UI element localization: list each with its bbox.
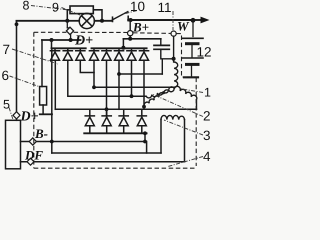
wire left drop to regulator D+ [16, 21, 18, 112]
wire rail75 to capacitor riser [119, 73, 162, 75]
node rectifier plus bus [121, 46, 125, 50]
svg-text:B+: B+ [132, 20, 149, 35]
terminal B- diamond [29, 138, 36, 145]
leader line 3 [164, 120, 203, 135]
node battery tap [191, 18, 196, 23]
node lamp left D+ [65, 19, 69, 23]
leader line 1 [181, 89, 203, 93]
wire phase column L1 anode [54, 60, 56, 109]
stator winding slope 1 [146, 88, 174, 98]
svg-text:11: 11 [158, 0, 172, 15]
svg-text:5: 5 [3, 98, 10, 112]
resistor R6 [40, 87, 47, 106]
leader line 5 [9, 108, 13, 120]
wire W down to stator [173, 36, 175, 62]
housing dashed boundary 4 [34, 32, 196, 168]
leader line 8 [9, 6, 203, 167]
svg-text:D+: D+ [74, 34, 93, 49]
diode VD-L2 [63, 48, 72, 60]
wire B+ bus riser to rectifier [122, 39, 124, 48]
arrow consumers [201, 17, 210, 24]
node col144 slope2 [142, 105, 146, 109]
rotor field winding 3 [161, 115, 185, 119]
node lamp right [100, 19, 104, 23]
leader line 9 [62, 8, 81, 16]
node B+ top [129, 18, 133, 22]
wire main top B+ line [17, 20, 68, 22]
svg-text:D+: D+ [20, 110, 39, 125]
svg-text:9: 9 [52, 1, 59, 15]
diode VD-B2 [102, 109, 111, 133]
battery GB12 [192, 20, 194, 37]
diode VD-R2 [102, 48, 111, 60]
diode VD-R5 [139, 48, 148, 60]
wire resistor left lead [67, 10, 70, 21]
node B- ground branch [50, 140, 54, 144]
stator winding slope right [175, 86, 197, 109]
wire lamp right lead [94, 20, 112, 22]
wire lamp left lead [67, 20, 79, 22]
terminal W circle [171, 31, 176, 36]
wire D+ terminal to bus [70, 35, 72, 40]
terminal D+ diamond [66, 27, 73, 34]
svg-text:1: 1 [204, 86, 211, 100]
svg-text:12: 12 [197, 45, 212, 60]
svg-text:10: 10 [130, 0, 145, 14]
wire resistor6 bottom lead [42, 105, 44, 114]
svg-text:4: 4 [203, 149, 211, 164]
leader line 6 [10, 76, 40, 87]
diode VD-L1 [50, 48, 59, 60]
node minus drop on B- wire [143, 140, 147, 144]
wire main plus diode bus [92, 47, 147, 49]
wire D+ bus [42, 39, 81, 41]
leader line 11 / W [172, 11, 174, 30]
wire col144 [143, 60, 145, 106]
node col131 rail96 [130, 94, 134, 98]
leader line 10 [122, 11, 138, 15]
wire DF riser to field coil [184, 120, 186, 162]
node col94 neutral [92, 85, 96, 89]
wire col131 [131, 60, 133, 96]
svg-text:W: W [177, 19, 190, 34]
terminal DF diamond [27, 158, 34, 165]
diode VD-R4 [127, 48, 136, 60]
resistor R8 (parallel to lamp) [70, 6, 93, 14]
wire resistor6 bottom bar [40, 113, 52, 115]
wire long vertical D+ to ground rail [51, 48, 53, 153]
ground battery [184, 76, 198, 78]
node B+ bus [128, 37, 132, 41]
switch S10 ignition [112, 17, 114, 21]
wire col119 [118, 60, 120, 109]
node D+ bus left riser [50, 38, 54, 42]
wire minus bus drop to B- [144, 133, 146, 141]
node top-left corner [15, 22, 19, 26]
stator winding slope 2 [144, 87, 174, 107]
wire field coil left lead [160, 120, 162, 153]
wire exciter diode bus [52, 47, 86, 49]
diode VD-R1 [89, 48, 98, 60]
wire B- from regulator [21, 141, 146, 143]
capacitor C [160, 39, 162, 45]
leader line 2 [152, 94, 203, 117]
leader line 7 [12, 49, 58, 64]
node col119 rail75 [117, 72, 121, 76]
svg-text:DF: DF [24, 148, 43, 163]
svg-text:7: 7 [3, 42, 11, 57]
wire col106 [106, 60, 108, 116]
node D+ bus terminal riser [69, 38, 73, 42]
wire B+ drop [129, 20, 131, 31]
diode VD-R3 [114, 48, 123, 60]
wire neutral rail to star point [94, 86, 175, 88]
wire phase column L2 anode to rail96 [68, 60, 146, 96]
diode VD-B1 [85, 109, 94, 133]
wire col94 neutral [93, 60, 95, 87]
svg-text:8: 8 [23, 0, 30, 13]
wire DF from regulator [21, 161, 185, 163]
wire long phase rail [55, 108, 196, 110]
node col106 rail109 [105, 107, 109, 111]
svg-text:6: 6 [2, 68, 10, 83]
terminal regulator D+ diamond [13, 112, 20, 119]
wire resistor6 top lead [41, 40, 43, 87]
wire to consumers with arrow (11) [193, 19, 204, 21]
node capacitor junction [172, 57, 176, 61]
terminal B+ circle [128, 31, 133, 36]
wire B+ bus [123, 38, 160, 40]
stator winding phase W vertical [174, 62, 178, 87]
diode VD-B3 [119, 109, 128, 133]
wire exciter bus riser [51, 40, 53, 48]
svg-text:2: 2 [203, 109, 211, 124]
wire ground rail lower [52, 152, 161, 154]
svg-text:3: 3 [203, 128, 211, 143]
wire phase column L3 anode to col94 [80, 60, 94, 72]
lamp HL9 charge indicator [79, 13, 94, 28]
svg-text:B-: B- [34, 126, 48, 141]
wire minus diode bus [84, 132, 146, 134]
wire D+ riser from lamp node to terminal [66, 21, 68, 28]
diode VD-B4 [137, 109, 146, 133]
leader line 4 [168, 157, 203, 167]
node minus bus [143, 131, 147, 135]
wire resistor right lead [93, 10, 102, 21]
wire switch to battery junction [128, 19, 193, 21]
regulator box 5 [6, 120, 21, 169]
wire B- end corner to ground rail [145, 142, 147, 154]
diode VD-L3 [76, 48, 85, 60]
